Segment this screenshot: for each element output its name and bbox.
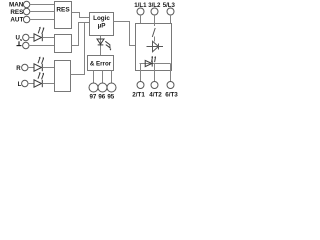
wire RES box to Logic input1	[72, 13, 90, 18]
wire RES to RES box	[30, 11, 55, 13]
terminal 3/L2	[151, 8, 158, 15]
terminal 2/T1	[137, 82, 144, 89]
wire ground to supply box	[29, 45, 55, 47]
wire contact bottom stem	[154, 37, 156, 42]
svg-text:R: R	[16, 65, 21, 72]
wire 5/L3 stem	[170, 15, 172, 24]
terminal 95	[107, 83, 116, 92]
wire LED to supply box	[42, 37, 54, 39]
terminal 5/L3	[167, 8, 174, 15]
bus line	[140, 63, 171, 65]
contact blade K1	[152, 28, 155, 37]
wire supply box to Logic input2	[72, 23, 90, 46]
svg-text:MAN: MAN	[9, 2, 24, 9]
wire error stem 96	[102, 71, 104, 84]
wire Logic to power block	[114, 22, 136, 46]
triac through line	[147, 46, 164, 48]
LED L	[34, 73, 44, 87]
svg-text:L: L	[18, 81, 22, 88]
terminal MAN	[23, 1, 29, 7]
terminal L	[22, 80, 28, 86]
terminal 4/T2	[151, 82, 158, 89]
svg-text:95: 95	[107, 93, 114, 100]
wire error stem 95	[111, 71, 113, 84]
wire Us to LED	[29, 37, 34, 39]
svg-text:2/T1: 2/T1	[132, 92, 145, 99]
block RES	[55, 2, 72, 29]
LED on bus	[145, 60, 152, 66]
svg-text:RES: RES	[10, 9, 23, 16]
bus drop 2/T1	[140, 64, 142, 71]
svg-text:RES: RES	[56, 7, 70, 14]
triac / photo-thyristor Q1	[153, 41, 159, 52]
LED Us (supply indicator)	[34, 28, 44, 42]
block power supply	[55, 35, 72, 53]
terminal 1/L1	[137, 8, 144, 15]
LED status (points down)	[97, 39, 111, 48]
block power switching	[136, 24, 172, 71]
wire remote box riser to Logic input2 line	[71, 23, 85, 75]
wire L LED to remote box	[42, 83, 54, 85]
terminal R	[22, 64, 28, 70]
wire 3/L2 stem	[154, 15, 156, 24]
terminal ground	[23, 42, 29, 48]
wire Logic to error block	[100, 36, 102, 56]
block remote R/L	[55, 61, 71, 92]
wire L to LED	[28, 83, 34, 85]
terminal RES	[23, 8, 29, 14]
block Logic uP	[90, 13, 114, 36]
wire AUT to RES box	[30, 19, 55, 21]
terminal 97	[89, 83, 98, 92]
terminal 6/T3	[167, 82, 174, 89]
svg-text:& Error: & Error	[90, 60, 112, 67]
svg-text:µP: µP	[98, 23, 106, 30]
wire 2/T1 stem	[140, 71, 142, 82]
terminal Us	[23, 34, 29, 40]
wire 1/L1 stem	[140, 15, 142, 24]
terminal 96	[98, 83, 107, 92]
svg-text:4/T2: 4/T2	[149, 92, 162, 99]
wire R LED to remote box	[42, 67, 54, 69]
opto arrows up	[151, 57, 154, 62]
terminal AUT	[23, 16, 29, 22]
LED R	[34, 58, 44, 72]
bus drop 4/T2	[154, 64, 156, 71]
wire contact top stem	[154, 24, 156, 27]
wire MAN to RES box	[30, 4, 55, 6]
svg-text:6/T3: 6/T3	[165, 92, 178, 99]
block & Error	[88, 56, 114, 71]
svg-text:97: 97	[89, 93, 96, 100]
wire 6/T3 stem	[170, 71, 172, 82]
wire R to LED	[28, 67, 34, 69]
wire error stem 97	[93, 71, 95, 84]
bus drop 6/T3	[170, 64, 172, 71]
svg-text:AUT: AUT	[10, 17, 23, 24]
svg-text:Logic: Logic	[93, 15, 110, 22]
svg-text:96: 96	[98, 93, 105, 100]
svg-text:5/L3: 5/L3	[163, 2, 176, 9]
node ground symbol	[17, 41, 22, 45]
wire 4/T2 stem	[154, 71, 156, 82]
